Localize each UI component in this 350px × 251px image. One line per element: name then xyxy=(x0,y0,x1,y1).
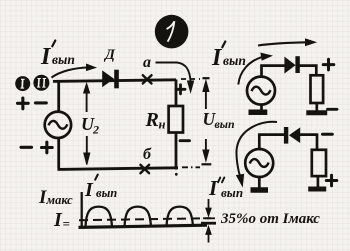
diode Д (triangle + cathode bar) xyxy=(102,70,119,89)
polarity − under terminal II xyxy=(36,101,47,104)
wire: source stub up + top wire (top right circuit) xyxy=(262,66,286,77)
wire: resistor stub down (bottom right circuit) xyxy=(317,176,320,187)
svg-text:Д: Д xyxy=(103,47,116,63)
curved arrow I'вып direction xyxy=(52,64,96,77)
wire: right vertical lower (resistor to bottom wire) xyxy=(175,133,178,170)
svg-text:I: I xyxy=(208,176,218,200)
waveform baseline xyxy=(79,225,208,227)
half-sine pulse 2 xyxy=(125,207,152,226)
svg-text:I: I xyxy=(40,44,52,70)
polarity + (top right circuit) xyxy=(323,59,334,70)
dash leader top (corner to Uвып line) xyxy=(181,78,200,80)
svg-text:вып: вып xyxy=(221,185,243,200)
svg-text:макс: макс xyxy=(46,193,74,207)
svg-text:н: н xyxy=(159,118,166,132)
wire: left vertical upper (corner to source top) xyxy=(57,80,60,112)
curved arrow from node a into load xyxy=(156,63,194,93)
svg-text:2: 2 xyxy=(92,123,99,137)
svg-text:I: I xyxy=(84,179,94,201)
wire: right vertical upper (corner to resistor) xyxy=(175,80,178,107)
wire: resistor stub down (top right circuit) xyxy=(315,103,318,111)
label Uвып xyxy=(203,109,235,131)
half-sine pulse 3 xyxy=(167,207,194,226)
label I'вып above waveform xyxy=(84,175,117,202)
curved arrow counterclockwise (bottom right circuit) xyxy=(236,122,277,186)
svg-text:a: a xyxy=(143,54,151,71)
label Iмакс xyxy=(38,187,73,208)
winding terminal II badge xyxy=(33,75,49,91)
resistor (bottom right circuit) xyxy=(312,150,326,176)
dashed DC level line xyxy=(79,218,211,220)
ink dot below junction xyxy=(175,173,178,176)
svg-text:I: I xyxy=(53,209,63,231)
winding terminal I badge xyxy=(15,76,30,91)
label U2 xyxy=(81,114,99,137)
resistor Rн xyxy=(169,106,183,133)
figure badge 1 xyxy=(155,15,189,49)
AC source G (secondary winding) xyxy=(45,112,71,138)
wire: source stub down (bottom right circuit) xyxy=(258,177,261,188)
polarity − (top right circuit) xyxy=(328,108,338,111)
label I″вып (bottom right circuit) xyxy=(208,176,243,200)
label 35% от Iмакс xyxy=(220,211,320,227)
half-sine pulse 1 xyxy=(86,207,113,226)
Uвып dimension bottom tick xyxy=(202,163,212,165)
label I'вып (top right circuit) xyxy=(211,42,246,72)
label Rн xyxy=(145,109,166,132)
svg-text:вып: вып xyxy=(215,117,235,131)
long current arrow (top right) xyxy=(258,39,316,46)
svg-text:35%о oт Iмакс: 35%о oт Iмакс xyxy=(220,211,320,227)
label I'вып (main output current) xyxy=(40,41,75,71)
node б X mark xyxy=(140,165,149,173)
ground bar under resistor (bottom right circuit) xyxy=(308,187,326,192)
svg-text:R: R xyxy=(145,109,159,131)
wire: top horizontal of main loop xyxy=(53,80,176,82)
node a X mark xyxy=(143,75,152,83)
polarity + under terminal I xyxy=(18,98,29,109)
ripple dimension arrow xyxy=(201,199,216,243)
load polarity + xyxy=(176,85,185,94)
svg-text:вып: вып xyxy=(223,53,246,68)
diode reversed (bottom right circuit) xyxy=(284,127,300,144)
Uвып dimension down arrow xyxy=(203,139,209,161)
label I= xyxy=(53,209,70,231)
svg-text:б: б xyxy=(143,146,152,163)
curved arrow clockwise (top right circuit) xyxy=(238,53,271,84)
Uвып dimension top tick xyxy=(203,77,210,79)
waveform axis vertical xyxy=(81,192,83,228)
load polarity − xyxy=(180,139,190,142)
U2 dimension arrow down segment xyxy=(84,136,90,165)
polarity + (bottom right circuit) xyxy=(326,175,337,186)
AC source (bottom right circuit) xyxy=(245,149,273,177)
wire: source stub up + top wire (bottom right circuit) xyxy=(259,135,284,150)
polarity − lower left of source xyxy=(21,146,32,149)
wire: diode to resistor (top right circuit) xyxy=(300,66,317,76)
ground bar under resistor (top right circuit) xyxy=(306,110,327,115)
svg-text:вып: вып xyxy=(52,52,75,67)
AC source (top right circuit) xyxy=(247,77,275,105)
polarity + lower left of source xyxy=(42,142,53,153)
svg-text:вып: вып xyxy=(96,186,117,200)
Uвып dimension up arrow xyxy=(203,81,209,110)
U2 dimension arrow up segment xyxy=(84,84,90,113)
svg-text:I: I xyxy=(211,45,223,71)
ground bar under source (bottom right circuit) xyxy=(251,187,269,193)
wire: left vertical lower (source bottom to corner) xyxy=(57,138,60,169)
ground bar under source (top right circuit) xyxy=(249,109,268,115)
wire: bottom horizontal of main loop xyxy=(58,168,179,170)
wire: source stub down (top right circuit) xyxy=(260,104,263,110)
polarity − (bottom right circuit) xyxy=(323,133,333,136)
resistor (top right circuit) xyxy=(311,75,324,103)
wire: diode to resistor (bottom right circuit) xyxy=(300,135,317,150)
svg-text:=: = xyxy=(63,216,70,231)
diode (top right circuit) xyxy=(284,56,299,73)
dash-dot leader bottom xyxy=(182,166,200,168)
